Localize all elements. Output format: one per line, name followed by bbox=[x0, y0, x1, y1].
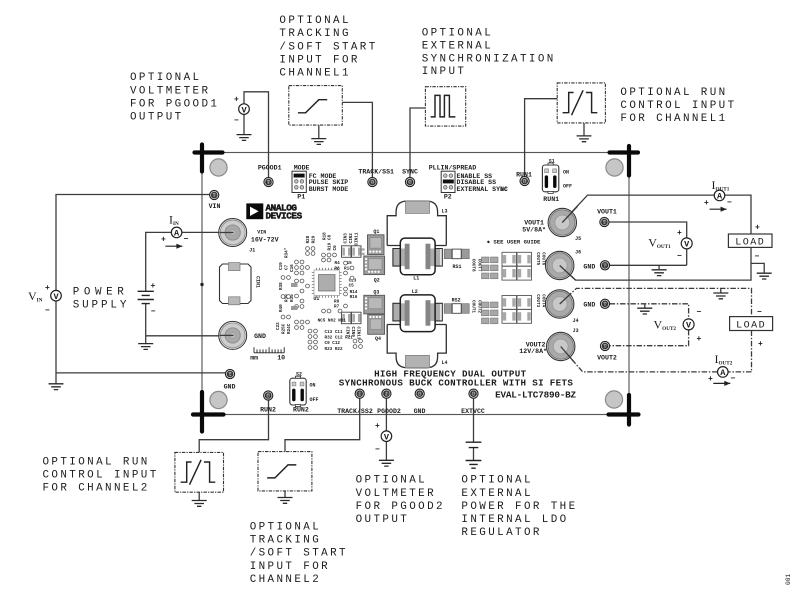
svg-text:−: − bbox=[755, 253, 760, 262]
svg-text:CIN2: CIN2 bbox=[349, 233, 354, 244]
svg-text:FOR CHANNEL2: FOR CHANNEL2 bbox=[43, 483, 150, 495]
svg-text:E12: E12 bbox=[470, 393, 477, 397]
svg-text:+: + bbox=[375, 422, 380, 431]
svg-text:R34*: R34* bbox=[285, 247, 290, 258]
svg-text:R29: R29 bbox=[312, 235, 317, 243]
svg-text:OPTIONAL: OPTIONAL bbox=[356, 475, 427, 487]
svg-text:+: + bbox=[708, 375, 713, 384]
svg-text:−: − bbox=[151, 308, 156, 317]
svg-text:R19: R19 bbox=[328, 242, 333, 250]
svg-text:CIN13: CIN13 bbox=[356, 327, 361, 340]
svg-text:E15: E15 bbox=[265, 395, 272, 399]
svg-text:OPTIONAL: OPTIONAL bbox=[279, 15, 350, 27]
svg-text:GND: GND bbox=[414, 408, 426, 415]
svg-text:EXTERNAL: EXTERNAL bbox=[422, 41, 493, 53]
svg-text:COUT2: COUT2 bbox=[477, 300, 482, 313]
svg-text:V: V bbox=[686, 321, 692, 331]
svg-text:/SOFT START: /SOFT START bbox=[279, 41, 377, 53]
svg-text:+: + bbox=[151, 282, 156, 291]
svg-text:C6: C6 bbox=[333, 245, 338, 251]
svg-text:16V-72V: 16V-72V bbox=[251, 236, 279, 243]
svg-text:P2: P2 bbox=[444, 194, 452, 201]
svg-text:Q4: Q4 bbox=[375, 336, 381, 342]
svg-text:OFF: OFF bbox=[310, 397, 319, 403]
svg-text:VIN: VIN bbox=[209, 203, 221, 210]
svg-text:OFF: OFF bbox=[563, 183, 572, 189]
svg-text:+: + bbox=[758, 340, 763, 349]
svg-text:E2: E2 bbox=[266, 182, 270, 186]
svg-text:R7: R7 bbox=[334, 305, 340, 310]
svg-text:RUN2: RUN2 bbox=[293, 406, 309, 413]
svg-text:PLLIN/SPREAD: PLLIN/SPREAD bbox=[429, 165, 477, 172]
svg-text:REGULATOR: REGULATOR bbox=[461, 527, 541, 539]
svg-text:RS2: RS2 bbox=[452, 298, 461, 304]
svg-text:PGOOD1: PGOOD1 bbox=[258, 164, 282, 171]
svg-text:L3: L3 bbox=[442, 208, 448, 214]
svg-text:FOR PGOOD2: FOR PGOOD2 bbox=[356, 501, 445, 513]
svg-text:J1: J1 bbox=[249, 247, 255, 253]
svg-text:−: − bbox=[375, 446, 380, 455]
svg-text:L1: L1 bbox=[413, 276, 419, 282]
svg-text:EVAL-LTC7890-BZ: EVAL-LTC7890-BZ bbox=[495, 389, 576, 400]
svg-text:SYNC: SYNC bbox=[402, 169, 418, 176]
svg-text:COUT4: COUT4 bbox=[541, 294, 546, 307]
svg-text:SYNCHRONOUS BUCK CONTROLLER WI: SYNCHRONOUS BUCK CONTROLLER WITH SI FETS bbox=[339, 377, 574, 388]
svg-text:NC: NC bbox=[501, 187, 507, 193]
svg-text:−: − bbox=[757, 308, 762, 317]
svg-text:OUTPUT: OUTPUT bbox=[356, 514, 410, 526]
svg-text:VIN: VIN bbox=[257, 229, 266, 235]
svg-text:OUTPUT: OUTPUT bbox=[130, 112, 184, 124]
svg-text:OPTIONAL RUN: OPTIONAL RUN bbox=[43, 457, 150, 469]
svg-text:P1: P1 bbox=[297, 194, 305, 201]
svg-text:TRACKING: TRACKING bbox=[279, 28, 350, 40]
svg-text:DEVICES: DEVICES bbox=[266, 210, 303, 221]
svg-text:J3: J3 bbox=[573, 328, 579, 334]
svg-text:CIN11: CIN11 bbox=[355, 232, 360, 245]
svg-text:R40: R40 bbox=[279, 304, 284, 312]
svg-text:INPUT FOR: INPUT FOR bbox=[279, 54, 359, 66]
svg-text:S1: S1 bbox=[549, 159, 555, 165]
svg-text:COUT7: COUT7 bbox=[477, 259, 482, 272]
svg-text:E10: E10 bbox=[407, 182, 414, 186]
svg-text:/SOFT START: /SOFT START bbox=[250, 548, 348, 560]
svg-text:J6: J6 bbox=[575, 250, 581, 256]
svg-text:+: + bbox=[697, 335, 702, 344]
svg-text:−: − bbox=[45, 307, 50, 316]
svg-text:CIN1: CIN1 bbox=[255, 276, 261, 288]
svg-text:A: A bbox=[720, 368, 726, 378]
svg-text:INPUT FOR: INPUT FOR bbox=[250, 561, 330, 573]
svg-text:LOAD: LOAD bbox=[736, 320, 766, 331]
svg-text:PULSE SKIP: PULSE SKIP bbox=[309, 179, 349, 186]
svg-text:E9: E9 bbox=[603, 303, 607, 307]
svg-text:COUT8: COUT8 bbox=[471, 259, 476, 272]
svg-text:ON: ON bbox=[563, 169, 569, 175]
svg-text:R8: R8 bbox=[335, 266, 341, 271]
svg-text:INTERNAL LDO: INTERNAL LDO bbox=[461, 514, 568, 526]
svg-text:● SEE USER GUIDE: ● SEE USER GUIDE bbox=[487, 239, 541, 246]
svg-text:R32 C12 R21: R32 C12 R21 bbox=[325, 336, 354, 341]
svg-text:C13 C11: C13 C11 bbox=[325, 330, 343, 335]
svg-text:V: V bbox=[53, 292, 59, 302]
svg-text:EXTVCC: EXTVCC bbox=[461, 408, 485, 415]
svg-text:POWER: POWER bbox=[73, 287, 129, 299]
svg-text:COUT6: COUT6 bbox=[541, 252, 546, 265]
svg-text:COUT5: COUT5 bbox=[535, 252, 540, 265]
svg-text:−: − bbox=[234, 117, 239, 126]
svg-text:E1: E1 bbox=[384, 393, 389, 397]
svg-text:+: + bbox=[45, 284, 50, 293]
svg-text:OPTIONAL: OPTIONAL bbox=[250, 522, 321, 534]
svg-text:RS1: RS1 bbox=[453, 264, 462, 270]
svg-text:RUN2: RUN2 bbox=[260, 406, 276, 413]
svg-text:mm: mm bbox=[250, 355, 258, 362]
svg-text:5V/8A*: 5V/8A* bbox=[522, 226, 546, 233]
svg-text:C8: C8 bbox=[328, 234, 333, 240]
svg-text:POWER FOR THE: POWER FOR THE bbox=[461, 501, 577, 513]
svg-text:LOAD: LOAD bbox=[735, 238, 765, 249]
svg-text:ON: ON bbox=[310, 383, 316, 389]
svg-text:C19: C19 bbox=[279, 262, 284, 270]
svg-text:NC5 N02 N01: NC5 N02 N01 bbox=[318, 319, 347, 324]
svg-text:S2: S2 bbox=[296, 372, 302, 378]
svg-text:−: − bbox=[727, 199, 732, 208]
svg-text:R38: R38 bbox=[279, 282, 284, 290]
svg-text:TRACKING: TRACKING bbox=[250, 535, 321, 547]
svg-text:+: + bbox=[755, 224, 760, 233]
svg-text:GND: GND bbox=[224, 384, 236, 391]
svg-text:E6: E6 bbox=[602, 222, 606, 226]
svg-text:E5: E5 bbox=[603, 346, 608, 350]
svg-text:SUPPLY: SUPPLY bbox=[73, 300, 130, 312]
svg-text:MODE: MODE bbox=[294, 165, 310, 172]
svg-text:−: − bbox=[697, 308, 702, 317]
svg-text:RUN1: RUN1 bbox=[543, 196, 559, 203]
svg-text:E13: E13 bbox=[416, 393, 423, 397]
svg-text:C7: C7 bbox=[285, 264, 290, 270]
svg-text:FOR PGOOD1: FOR PGOOD1 bbox=[130, 98, 219, 110]
svg-text:TRACK/SS2: TRACK/SS2 bbox=[337, 408, 373, 415]
svg-text:R16: R16 bbox=[350, 295, 358, 300]
svg-text:VOUT1: VOUT1 bbox=[597, 209, 617, 216]
svg-text:OPTIONAL: OPTIONAL bbox=[461, 475, 532, 487]
svg-text:10: 10 bbox=[277, 355, 285, 362]
svg-text:A: A bbox=[717, 192, 723, 202]
svg-text:BURST MODE: BURST MODE bbox=[309, 186, 349, 193]
svg-text:R28: R28 bbox=[306, 235, 311, 243]
svg-text:C5: C5 bbox=[349, 284, 355, 289]
svg-text:PGOOD2: PGOOD2 bbox=[377, 408, 401, 415]
svg-text:DISABLE SS: DISABLE SS bbox=[457, 179, 497, 186]
svg-text:VOUT2: VOUT2 bbox=[597, 355, 617, 362]
svg-text:CONTROL INPUT: CONTROL INPUT bbox=[43, 470, 159, 482]
svg-text:Q2: Q2 bbox=[374, 277, 380, 283]
svg-text:J5: J5 bbox=[575, 236, 581, 242]
svg-text:GND: GND bbox=[583, 263, 595, 270]
svg-text:E14: E14 bbox=[521, 181, 528, 185]
svg-text:R35: R35 bbox=[290, 294, 295, 302]
svg-text:V: V bbox=[241, 105, 247, 115]
svg-text:L4: L4 bbox=[442, 360, 448, 366]
svg-text:+: + bbox=[677, 229, 682, 238]
svg-text:V: V bbox=[684, 240, 690, 250]
svg-text:FOR CHANNEL1: FOR CHANNEL1 bbox=[620, 113, 727, 125]
svg-text:+: + bbox=[161, 236, 166, 245]
svg-text:12V/8A*: 12V/8A* bbox=[519, 348, 547, 355]
svg-text:−: − bbox=[731, 375, 736, 384]
svg-text:COUT1: COUT1 bbox=[471, 300, 476, 313]
svg-text:Q3: Q3 bbox=[373, 290, 379, 296]
svg-text:001: 001 bbox=[785, 574, 792, 585]
svg-text:CONTROL INPUT: CONTROL INPUT bbox=[620, 100, 736, 112]
svg-text:GND: GND bbox=[254, 333, 266, 340]
svg-text:Q1: Q1 bbox=[373, 229, 379, 235]
svg-text:E9: E9 bbox=[357, 393, 361, 397]
svg-text:E11: E11 bbox=[369, 182, 376, 186]
svg-text:VOLTMETER: VOLTMETER bbox=[130, 85, 210, 97]
svg-text:INPUT: INPUT bbox=[422, 66, 467, 78]
svg-text:EXTERNAL: EXTERNAL bbox=[461, 488, 532, 500]
svg-text:A: A bbox=[174, 229, 180, 239]
svg-text:−: − bbox=[677, 252, 682, 261]
svg-text:U1: U1 bbox=[313, 296, 319, 302]
svg-text:COUT3: COUT3 bbox=[535, 294, 540, 307]
svg-text:R23 R22: R23 R22 bbox=[325, 347, 343, 352]
svg-text:E3: E3 bbox=[212, 195, 217, 199]
svg-text:GND: GND bbox=[583, 302, 595, 309]
svg-text:TRACK/SS1: TRACK/SS1 bbox=[358, 169, 394, 176]
svg-text:V: V bbox=[384, 432, 390, 442]
svg-text:SYNCHRONIZATION: SYNCHRONIZATION bbox=[422, 53, 556, 65]
svg-text:+: + bbox=[234, 96, 239, 105]
svg-text:J4: J4 bbox=[573, 318, 579, 324]
svg-text:OPTIONAL: OPTIONAL bbox=[130, 72, 201, 84]
svg-text:E4: E4 bbox=[228, 374, 233, 378]
svg-text:R25C: R25C bbox=[282, 323, 287, 334]
svg-text:OPTIONAL RUN: OPTIONAL RUN bbox=[620, 87, 727, 99]
svg-text:C9 C12: C9 C12 bbox=[325, 341, 341, 346]
svg-text:CHANNEL2: CHANNEL2 bbox=[250, 574, 321, 586]
svg-text:+: + bbox=[704, 199, 709, 208]
svg-text:L2: L2 bbox=[412, 289, 418, 295]
svg-text:C22: C22 bbox=[276, 322, 281, 330]
svg-text:−: − bbox=[184, 235, 189, 244]
svg-text:OPTIONAL: OPTIONAL bbox=[422, 28, 493, 40]
svg-text:CIN3: CIN3 bbox=[344, 233, 349, 244]
svg-text:CHANNEL1: CHANNEL1 bbox=[279, 68, 350, 80]
svg-text:R24C: R24C bbox=[287, 323, 292, 334]
svg-text:VOLTMETER: VOLTMETER bbox=[356, 488, 436, 500]
svg-text:E8: E8 bbox=[603, 265, 608, 269]
